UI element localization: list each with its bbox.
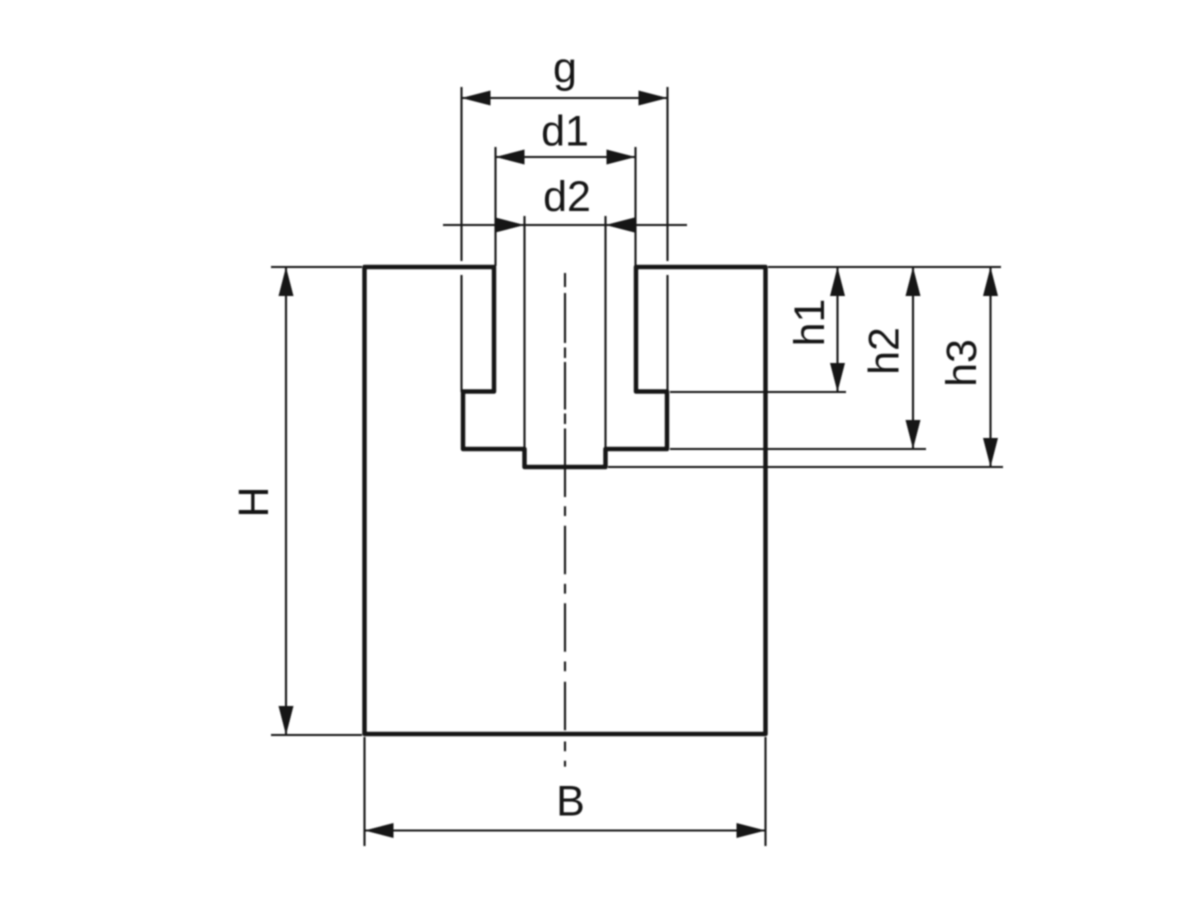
svg-text:h1: h1 — [786, 299, 834, 347]
svg-text:g: g — [553, 44, 577, 92]
svg-text:h3: h3 — [938, 339, 986, 387]
svg-text:B: B — [556, 778, 585, 826]
svg-text:d1: d1 — [541, 108, 589, 156]
svg-text:h2: h2 — [861, 327, 909, 375]
svg-text:H: H — [230, 486, 278, 517]
svg-text:d2: d2 — [543, 173, 591, 221]
